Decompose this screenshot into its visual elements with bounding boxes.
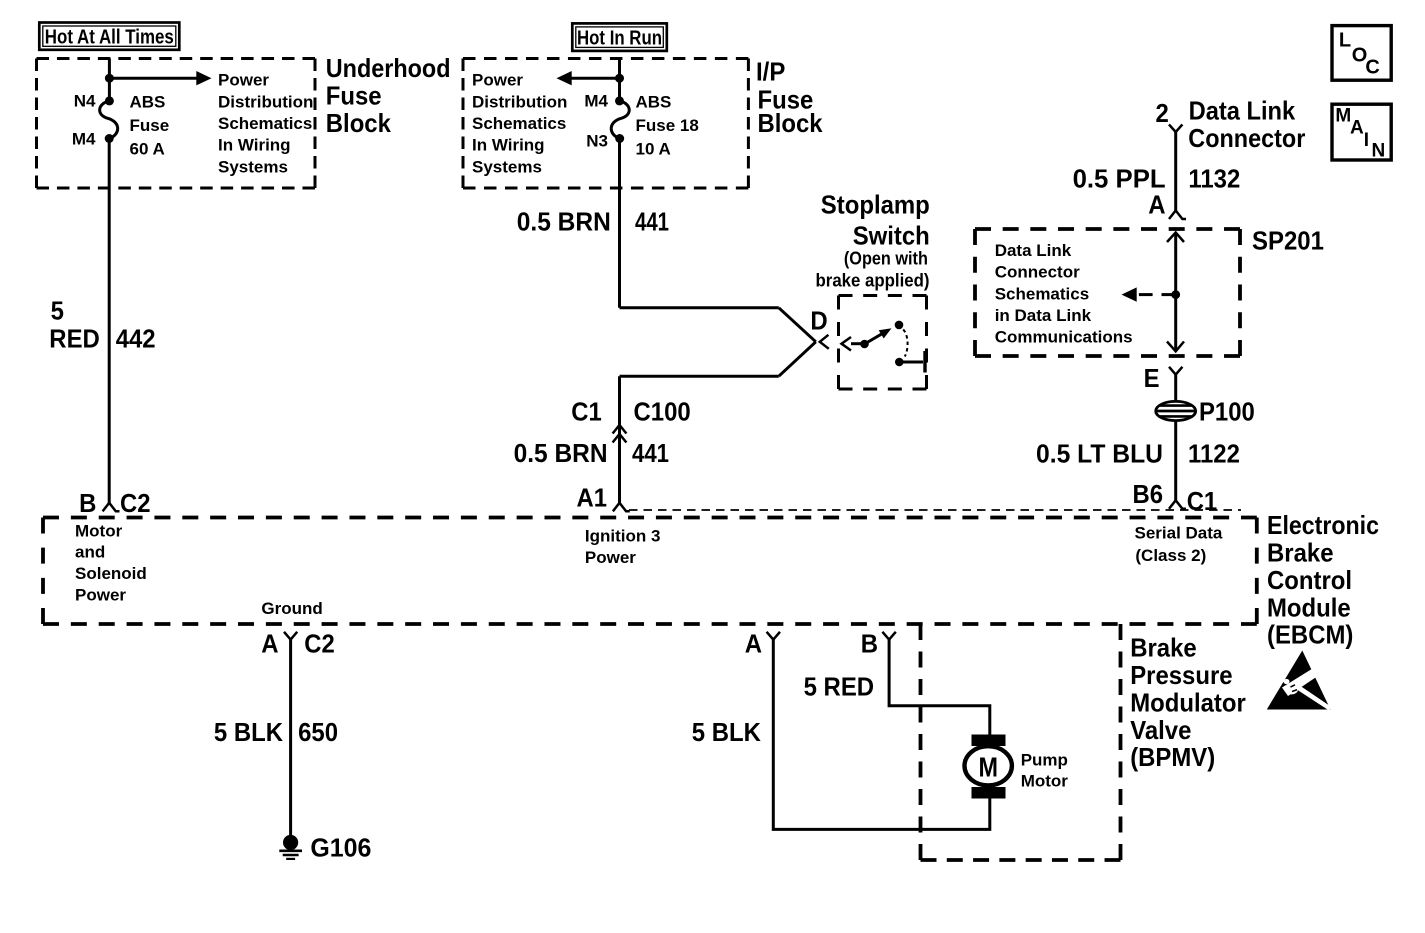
svg-text:B6: B6 xyxy=(1133,479,1164,509)
svg-text:Connector: Connector xyxy=(995,263,1080,282)
connector pin A1 at EBCM xyxy=(577,483,630,513)
label I/P Fuse Block xyxy=(756,57,823,139)
wire 650 BLK ground xyxy=(289,640,292,836)
svg-text:Schematics: Schematics xyxy=(995,284,1089,303)
label 2 Data Link Connector xyxy=(1156,96,1306,153)
svg-text:Motor: Motor xyxy=(75,521,123,540)
svg-text:442: 442 xyxy=(116,324,156,354)
svg-text:Hot At All Times: Hot At All Times xyxy=(45,27,174,49)
ground G106 xyxy=(279,832,371,862)
switch terminal bar xyxy=(923,351,926,373)
svg-text:P100: P100 xyxy=(1199,397,1255,427)
svg-text:650: 650 xyxy=(298,717,338,747)
svg-text:Modulator: Modulator xyxy=(1130,687,1246,717)
wire serial data bus with arrows xyxy=(1167,233,1184,352)
svg-text:Schematics: Schematics xyxy=(218,114,312,133)
module box EBCM xyxy=(43,516,1257,520)
connector pin 2 at DLC xyxy=(1169,125,1182,133)
label box Hot At All Times xyxy=(39,23,179,50)
svg-text:Fuse 18: Fuse 18 xyxy=(636,116,699,135)
svg-text:A: A xyxy=(745,629,763,659)
svg-text:441: 441 xyxy=(635,206,669,236)
wire diagonal to D xyxy=(779,308,816,342)
motor pump motor xyxy=(965,735,1069,799)
svg-text:Systems: Systems xyxy=(218,157,288,176)
svg-text:Brake: Brake xyxy=(1267,538,1334,568)
connector pin B at BPMV xyxy=(861,629,896,659)
wire 442 RED vertical xyxy=(108,141,111,503)
svg-text:I/P: I/P xyxy=(756,57,785,87)
svg-text:Communications: Communications xyxy=(995,328,1133,347)
svg-text:and: and xyxy=(75,543,105,562)
switch blade with arrowhead xyxy=(865,331,887,344)
node junction (underhood feed) xyxy=(105,74,114,83)
svg-text:M: M xyxy=(978,751,998,782)
svg-text:G106: G106 xyxy=(310,832,371,862)
svg-text:0.5 BRN: 0.5 BRN xyxy=(517,206,611,236)
connector pin B C2 at EBCM xyxy=(79,488,150,518)
svg-text:C100: C100 xyxy=(634,396,691,426)
svg-text:B: B xyxy=(79,488,96,518)
label 0.5 BRN 441 lower xyxy=(514,438,669,468)
wire arrow to data link schematics xyxy=(1122,287,1176,301)
switch contact lower xyxy=(895,358,904,367)
connector C100 inline xyxy=(571,396,690,442)
svg-text:A1: A1 xyxy=(577,483,608,513)
svg-text:SP201: SP201 xyxy=(1252,225,1324,255)
svg-text:1132: 1132 xyxy=(1188,163,1240,193)
label Stoplamp Switch xyxy=(816,190,930,291)
label box Hot In Run xyxy=(572,23,667,51)
svg-text:1122: 1122 xyxy=(1188,438,1240,468)
svg-text:Serial Data: Serial Data xyxy=(1135,523,1223,542)
svg-text:M4: M4 xyxy=(72,129,96,148)
svg-text:A: A xyxy=(1148,190,1166,220)
page tab MAIN xyxy=(1332,104,1391,161)
wire BLK pump motor return xyxy=(773,640,990,830)
svg-text:Motor: Motor xyxy=(1021,772,1069,791)
wire feed arrow left xyxy=(571,77,620,80)
svg-text:E: E xyxy=(1144,363,1160,393)
wire feed arrow to Power Distribution xyxy=(109,77,197,80)
svg-text:5 BLK: 5 BLK xyxy=(214,717,283,747)
svg-text:Distribution: Distribution xyxy=(218,92,313,111)
svg-text:Stoplamp: Stoplamp xyxy=(821,190,930,220)
svg-text:B: B xyxy=(861,629,878,659)
connector pin B6 C1 at EBCM xyxy=(1133,479,1218,516)
svg-text:C1: C1 xyxy=(571,396,602,426)
svg-text:Valve: Valve xyxy=(1130,715,1191,745)
svg-text:C2: C2 xyxy=(120,488,151,518)
label ignition 3 power xyxy=(585,527,661,568)
switch lower contact lead xyxy=(903,361,923,364)
switch arrow to D xyxy=(851,342,862,345)
wire RED pump motor feed xyxy=(889,640,990,736)
svg-text:Brake: Brake xyxy=(1130,633,1197,663)
connector pin A at SP201 xyxy=(1148,190,1186,220)
switch travel arc dashed xyxy=(903,330,907,357)
wire to stoplamp switch upper xyxy=(620,306,779,309)
connector D chevron xyxy=(810,305,828,349)
svg-text:Ground: Ground xyxy=(261,599,322,618)
svg-text:(Open with: (Open with xyxy=(844,248,928,268)
label 0.5 LT BLU 1122 xyxy=(1036,438,1240,468)
svg-text:Block: Block xyxy=(326,108,392,138)
wire 441 BRN down from fuse xyxy=(618,141,621,308)
svg-text:Connector: Connector xyxy=(1188,123,1305,153)
label power distribution (I/P) xyxy=(472,71,567,177)
svg-text:Pressure: Pressure xyxy=(1130,660,1232,690)
svg-text:I: I xyxy=(1364,130,1369,151)
switch pivot xyxy=(860,340,869,349)
svg-text:A: A xyxy=(1350,117,1364,138)
wire ignition feed vertical xyxy=(618,59,621,100)
svg-text:Control: Control xyxy=(1267,565,1352,595)
svg-text:A: A xyxy=(261,629,279,659)
label 0.5 BRN 441 upper xyxy=(517,206,669,236)
svg-text:C2: C2 xyxy=(304,629,335,659)
valve box BPMV xyxy=(1119,624,1123,860)
svg-text:Power: Power xyxy=(472,71,523,90)
svg-text:brake applied): brake applied) xyxy=(816,270,930,290)
splice box SP201 xyxy=(975,227,1240,231)
wire return horizontal xyxy=(620,375,779,378)
svg-text:C1: C1 xyxy=(1187,486,1218,516)
fuse ABS Fuse 18 10A xyxy=(584,91,698,158)
svg-text:(Class 2): (Class 2) xyxy=(1135,546,1206,565)
node splice junction xyxy=(1171,290,1180,299)
svg-text:(BPMV): (BPMV) xyxy=(1130,742,1215,772)
svg-text:(EBCM): (EBCM) xyxy=(1267,620,1353,650)
svg-text:Distribution: Distribution xyxy=(472,92,567,111)
svg-text:Power: Power xyxy=(218,71,269,90)
label motor and solenoid power xyxy=(75,521,147,604)
svg-text:Hot In Run: Hot In Run xyxy=(577,27,662,49)
underhood fuse block box xyxy=(37,57,316,60)
EBCM internal connector dashed line xyxy=(629,509,1241,511)
svg-text:L: L xyxy=(1339,30,1351,52)
connector pin A at BPMV xyxy=(745,629,780,659)
svg-text:in Data Link: in Data Link xyxy=(995,306,1092,325)
I/P fuse block box xyxy=(463,57,748,60)
svg-text:N: N xyxy=(1372,141,1386,162)
label data link schematics xyxy=(995,241,1133,347)
svg-text:5 BLK: 5 BLK xyxy=(692,717,761,747)
svg-text:Module: Module xyxy=(1267,592,1351,622)
svg-text:ABS: ABS xyxy=(636,93,672,112)
svg-text:ABS: ABS xyxy=(130,93,166,112)
svg-text:Pump: Pump xyxy=(1021,750,1068,769)
svg-text:5 RED: 5 RED xyxy=(804,671,875,701)
fuse ABS Fuse 60A xyxy=(72,91,169,158)
svg-text:Power: Power xyxy=(75,586,126,605)
wire battery feed vertical xyxy=(108,59,111,100)
svg-text:In Wiring: In Wiring xyxy=(472,136,545,155)
switch internals xyxy=(842,321,926,373)
svg-text:Power: Power xyxy=(585,548,636,567)
grommet P100 xyxy=(1156,397,1255,427)
svg-text:Block: Block xyxy=(758,108,824,138)
label serial data class 2 xyxy=(1135,523,1223,565)
wire 441 below switch xyxy=(618,376,621,503)
svg-text:0.5 BRN: 0.5 BRN xyxy=(514,438,608,468)
svg-text:M: M xyxy=(1335,105,1351,126)
label power distribution (underhood) xyxy=(218,71,313,177)
svg-text:Data Link: Data Link xyxy=(995,241,1072,260)
svg-text:Fuse: Fuse xyxy=(326,80,382,110)
stoplamp switch box xyxy=(839,294,927,297)
svg-text:Schematics: Schematics xyxy=(472,114,566,133)
svg-text:60 A: 60 A xyxy=(130,140,165,159)
label 5 BLK 650 xyxy=(214,717,338,747)
ESD symbol xyxy=(1267,651,1332,711)
wire 1122 LT BLU xyxy=(1174,375,1177,501)
svg-text:In Wiring: In Wiring xyxy=(218,136,291,155)
svg-text:M4: M4 xyxy=(584,91,608,110)
svg-text:Electronic: Electronic xyxy=(1267,510,1379,540)
connector pin E below SP201 xyxy=(1144,363,1183,393)
svg-text:RED: RED xyxy=(49,324,100,354)
svg-text:Ignition 3: Ignition 3 xyxy=(585,527,661,546)
label 5 RED 442 xyxy=(49,296,155,354)
page tab LOC xyxy=(1332,26,1391,81)
svg-text:Data Link: Data Link xyxy=(1189,96,1296,126)
svg-text:D: D xyxy=(810,305,827,335)
label Brake Pressure Modulator Valve (BPMV) xyxy=(1130,633,1246,773)
svg-text:Underhood: Underhood xyxy=(326,53,451,83)
wire diagonal from D xyxy=(779,342,816,376)
label Underhood Fuse Block xyxy=(326,53,451,138)
svg-text:C: C xyxy=(1365,56,1379,78)
svg-text:Solenoid: Solenoid xyxy=(75,564,147,583)
svg-text:Systems: Systems xyxy=(472,157,542,176)
svg-text:2: 2 xyxy=(1156,98,1169,128)
svg-text:441: 441 xyxy=(632,438,669,468)
label 0.5 PPL 1132 xyxy=(1073,163,1241,193)
switch contact upper xyxy=(895,321,904,330)
svg-text:0.5 LT BLU: 0.5 LT BLU xyxy=(1036,438,1163,468)
label Electronic Brake Control Module (EBCM) xyxy=(1267,510,1379,650)
node junction xyxy=(615,74,624,83)
svg-text:5: 5 xyxy=(51,296,64,326)
svg-text:N3: N3 xyxy=(586,132,608,151)
wire 1132 PPL xyxy=(1174,132,1177,211)
connector pin A C2 ground xyxy=(261,629,334,659)
svg-text:N4: N4 xyxy=(74,91,96,110)
svg-text:Fuse: Fuse xyxy=(130,116,170,135)
svg-text:Switch: Switch xyxy=(853,221,930,251)
svg-text:10 A: 10 A xyxy=(636,140,671,159)
